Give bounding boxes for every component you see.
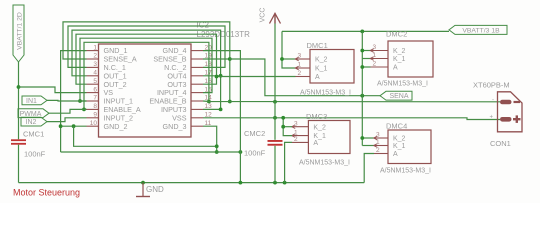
svg-text:8: 8 — [93, 103, 97, 110]
wire OUT_2/OUT3 loop — [76, 34, 217, 84]
node ENABLE_A junction — [82, 108, 86, 112]
wire to DMC2 pin A — [362, 66, 370, 68]
svg-text:-: - — [492, 98, 494, 104]
wire GND_2 to GND_3 under IC — [74, 126, 217, 146]
DMC2 pin 1 (K_1) stub — [371, 58, 389, 60]
IC2 pin 8 (ENABLE_A) stub — [87, 108, 99, 110]
svg-text:2: 2 — [376, 147, 380, 154]
svg-text:3: 3 — [376, 132, 380, 139]
node DMC2 A junction — [360, 65, 364, 69]
svg-text:10: 10 — [90, 120, 98, 127]
wire pin19 to loop — [203, 58, 230, 60]
diode module DMC4 body — [388, 130, 431, 164]
node SENSE junction — [228, 57, 232, 61]
IC2 pin 12 (VSS) stub — [191, 117, 203, 119]
wire OUT_1/OUT4 loop down to pin13 — [72, 30, 221, 109]
svg-text:VBATT/3 1B: VBATT/3 1B — [462, 28, 500, 35]
DMC1 pin 2 (A) stub — [296, 76, 311, 78]
svg-text:3: 3 — [93, 61, 97, 68]
DMC3 pin arrow — [292, 125, 296, 129]
node ENABLE_B junction — [207, 100, 211, 104]
svg-text:K_1: K_1 — [315, 66, 328, 73]
node DMC4 K junction — [360, 136, 364, 140]
svg-text:K_2: K_2 — [315, 57, 328, 64]
wire PWMA to ENABLE_A — [49, 109, 87, 113]
DMC4 pin 1 (K_1) stub — [374, 145, 388, 147]
svg-text:CMC2: CMC2 — [244, 129, 265, 138]
svg-text:+: + — [490, 115, 494, 121]
wire to DMC4 K_1 — [362, 145, 374, 147]
svg-text:A: A — [313, 140, 318, 147]
svg-text:2: 2 — [294, 136, 298, 143]
IC2 pin 1 (GND_1) stub — [87, 50, 99, 52]
svg-text:5: 5 — [93, 78, 97, 85]
wire SENSE_A to SENSE_B loop — [63, 22, 230, 102]
svg-text:A: A — [393, 151, 398, 158]
svg-text:1: 1 — [376, 139, 380, 146]
wire VBATT to DMC1 K_2 — [282, 58, 296, 60]
CON1 pad 1 (minus) — [500, 100, 512, 105]
diode module DMC3 body — [308, 121, 350, 154]
wire GND_1 pin1 down — [61, 51, 87, 152]
svg-text:DMC4: DMC4 — [386, 122, 407, 131]
DMC3 pin 2 (A) stub — [292, 141, 308, 143]
svg-text:100nF: 100nF — [24, 150, 46, 159]
node OUT4 junction — [219, 74, 223, 78]
node GND junction — [72, 124, 76, 128]
wire CMC2 to GND bus — [274, 146, 276, 183]
IC2 pin 3 (N.C._1) stub — [87, 66, 99, 68]
wire GND horizontal bus — [61, 151, 241, 153]
DMC2 pin arrow — [370, 49, 374, 53]
wire rail to CON1 minus — [203, 100, 500, 103]
IC2 pin 10 (GND_2) stub — [87, 125, 99, 127]
svg-text:K_2: K_2 — [393, 136, 406, 143]
svg-text:1: 1 — [373, 52, 377, 59]
input flag IN1 — [22, 96, 47, 105]
wire ENABLE_A/ENABLE_B loop — [84, 42, 209, 109]
input flag PWMA — [18, 109, 49, 118]
wire to DMC3 K_2 — [283, 126, 292, 128]
DMC1 pin 1 (K_1) stub — [296, 67, 311, 69]
node GND symbol junction — [141, 181, 145, 185]
svg-text:1: 1 — [93, 44, 97, 51]
wire N.C. loop pin3 to pin18 — [68, 26, 225, 67]
svg-text:K_1: K_1 — [393, 56, 406, 63]
supply flag VBATT/3.1B — [449, 25, 507, 34]
IC2 pin 4 (OUT_1) stub — [87, 75, 99, 77]
capacitor CMC1 plates — [11, 139, 26, 141]
wire IN1 to INPUT_1 — [47, 99, 87, 102]
svg-text:DMC2: DMC2 — [386, 30, 407, 39]
diode module DMC1 body — [310, 50, 354, 84]
wire CMC1 to GND bus — [18, 145, 20, 183]
node GND junction — [215, 150, 219, 154]
wire DMC3 pin A down to GND bus — [285, 142, 292, 182]
node GND junction — [239, 181, 243, 185]
CON1 pad 2 (plus) — [500, 117, 512, 122]
IC2 pin 2 (SENSE_A) stub — [87, 58, 99, 60]
svg-text:1: 1 — [298, 62, 302, 69]
IC2 pin 20 (GND_4) stub — [191, 50, 203, 52]
node GND junction DMC3 — [283, 181, 287, 185]
wire bottom GND bus — [19, 182, 365, 184]
svg-text:3: 3 — [294, 120, 298, 127]
CON1 plus sign — [513, 118, 521, 120]
wire VBATT to DMC1 K_1 — [282, 31, 296, 68]
IC2 pin 19 (SENSE_B) stub — [191, 58, 203, 60]
DMC4 pin 2 (A) stub — [374, 153, 388, 155]
IC2 pin 13 (INPUT3) stub — [191, 108, 203, 110]
wire VBATT down to DMC2/DMC4 — [361, 31, 363, 145]
node rail junction — [273, 100, 277, 104]
svg-text:4: 4 — [93, 70, 97, 77]
node DMC3 K junction — [281, 125, 285, 129]
node GND junction CMC2 — [273, 181, 277, 185]
svg-text:VBATT/1 2D: VBATT/1 2D — [17, 12, 24, 50]
wire GND_2 pin10 left — [61, 125, 87, 127]
wire IN2 to INPUT_2 — [47, 118, 87, 122]
DMC1 pin 3 (K_2) stub — [296, 58, 311, 60]
wire VBATT rail top right — [282, 30, 449, 32]
node INPUT3 junction — [219, 108, 223, 112]
wire to DMC2 K_2 — [362, 50, 370, 52]
svg-text:IN1: IN1 — [26, 98, 37, 105]
DMC4 pin arrow — [374, 136, 378, 140]
node VBATT junction — [360, 30, 364, 34]
svg-text:GND_3: GND_3 — [163, 122, 187, 131]
svg-text:2: 2 — [298, 70, 302, 77]
svg-text:A: A — [393, 65, 398, 72]
wire GND_3 pin11 down — [203, 126, 217, 152]
ground symbol GND — [142, 183, 144, 197]
IC2 pin 9 (INPUT_2) stub — [87, 117, 99, 119]
svg-text:100nF: 100nF — [244, 149, 266, 158]
connector CON1 XT60PB-M outline — [498, 92, 523, 132]
svg-text:IN2: IN2 — [26, 119, 37, 126]
DMC2 pin arrow — [370, 57, 374, 61]
wire SENSE net to SENA flag — [230, 59, 380, 96]
DMC4 pin arrow — [374, 144, 378, 148]
wire pin17 to OUT loop — [203, 75, 221, 77]
DMC4 pin 3 (K_2) stub — [374, 137, 388, 139]
svg-text:2: 2 — [373, 61, 377, 68]
svg-text:A/5NM153-M3_I: A/5NM153-M3_I — [380, 167, 431, 174]
svg-text:7: 7 — [93, 95, 97, 102]
node VSS-VCC junction — [273, 116, 277, 120]
svg-text:A/5NM153-M3_I: A/5NM153-M3_I — [299, 160, 350, 167]
wire OUT net to DMC1 pin A — [217, 76, 296, 78]
IC2 pin 11 (GND_3) stub — [191, 125, 203, 127]
capacitor CMC2 plates — [268, 140, 283, 142]
IC2 pin 5 (OUT_2) stub — [87, 83, 99, 85]
svg-text:K_2: K_2 — [393, 48, 406, 55]
diode module DMC2 body — [388, 41, 433, 77]
wire VSS rail to CON1 plus — [203, 118, 500, 120]
wire to DMC2 K_1 — [362, 58, 370, 60]
wire VBATT to VS pin6 — [19, 87, 87, 93]
DMC1 pin arrow — [295, 66, 299, 70]
input flag IN2 — [21, 117, 47, 126]
IC2 pin 17 (OUT4) stub — [191, 75, 203, 77]
svg-text:DMC3: DMC3 — [306, 112, 327, 121]
svg-text:A/5NM153-M3_I: A/5NM153-M3_I — [377, 81, 428, 88]
wire GND_4 pin20 down to GND bus — [203, 51, 240, 183]
wire GND bus to DMC4 pin A — [364, 154, 374, 183]
svg-text:CON1: CON1 — [490, 139, 511, 148]
svg-text:A: A — [315, 74, 320, 81]
svg-text:9: 9 — [93, 112, 97, 119]
node DMC1 K junction — [280, 57, 284, 61]
op-amp/driver IC U=IC2 L293DD013TR body — [99, 44, 192, 137]
svg-text:CMC1: CMC1 — [23, 130, 44, 139]
svg-text:2: 2 — [93, 53, 97, 60]
wire INPUT_1/INPUT_4 loop — [80, 38, 212, 101]
node VSS rail junction — [281, 116, 285, 120]
IC2 pin 14 (ENABLE_B) stub — [191, 100, 203, 102]
CON1 minus sign — [514, 101, 521, 103]
node SENA junction — [360, 94, 364, 98]
svg-text:K_1: K_1 — [393, 143, 406, 150]
svg-text:3: 3 — [373, 44, 377, 51]
wire to DMC4 K_2 — [362, 137, 374, 139]
node GND junction — [215, 144, 219, 148]
supply flag VBATT/1.2D — [13, 5, 24, 62]
node DMC2 K junction — [360, 49, 364, 53]
DMC2 pin 3 (K_2) stub — [371, 50, 389, 52]
svg-text:Motor Steuerung: Motor Steuerung — [13, 188, 80, 198]
DMC1 pin arrow — [295, 57, 299, 61]
node GND junction pin10 — [59, 124, 63, 128]
node INPUT_1 junction — [78, 99, 82, 103]
svg-text:6: 6 — [93, 86, 97, 93]
node VBATT junction — [17, 85, 21, 89]
svg-text:3: 3 — [298, 53, 302, 60]
svg-text:DMC1: DMC1 — [307, 41, 328, 50]
DMC3 pin 1 (K_1) stub — [292, 135, 308, 137]
DMC2 pin 2 (A) stub — [371, 66, 389, 68]
IC2 pin 18 (N.C._2) stub — [191, 66, 203, 68]
svg-text:GND_2: GND_2 — [104, 122, 128, 131]
supply symbol VCC arrow — [274, 16, 276, 140]
DMC3 pin 3 (K_2) stub — [292, 126, 308, 128]
wire VBATT flag down to CMC1 — [18, 62, 20, 139]
svg-text:A/5NM153-M3_I: A/5NM153-M3_I — [300, 90, 351, 97]
node rail junction — [228, 100, 232, 104]
IC2 pin 7 (INPUT_1) stub — [87, 100, 99, 102]
IC2 pin 16 (OUT3) stub — [191, 83, 203, 85]
svg-text:GND: GND — [146, 185, 164, 194]
node GND junction — [239, 150, 243, 154]
svg-text:VCC: VCC — [260, 8, 267, 23]
signal flag SENA — [380, 91, 412, 100]
svg-text:SENA: SENA — [389, 93, 408, 100]
node OUT3 junction — [215, 75, 219, 79]
svg-text:XT60PB-M: XT60PB-M — [473, 81, 510, 90]
DMC3 pin arrow — [292, 134, 296, 138]
wire VSS rail down to DMC3 K_1 — [283, 118, 292, 136]
IC2 pin 15 (INPUT_4) stub — [191, 92, 203, 94]
svg-text:K_2: K_2 — [313, 124, 326, 131]
IC2 pin 6 (VS) stub — [87, 92, 99, 94]
